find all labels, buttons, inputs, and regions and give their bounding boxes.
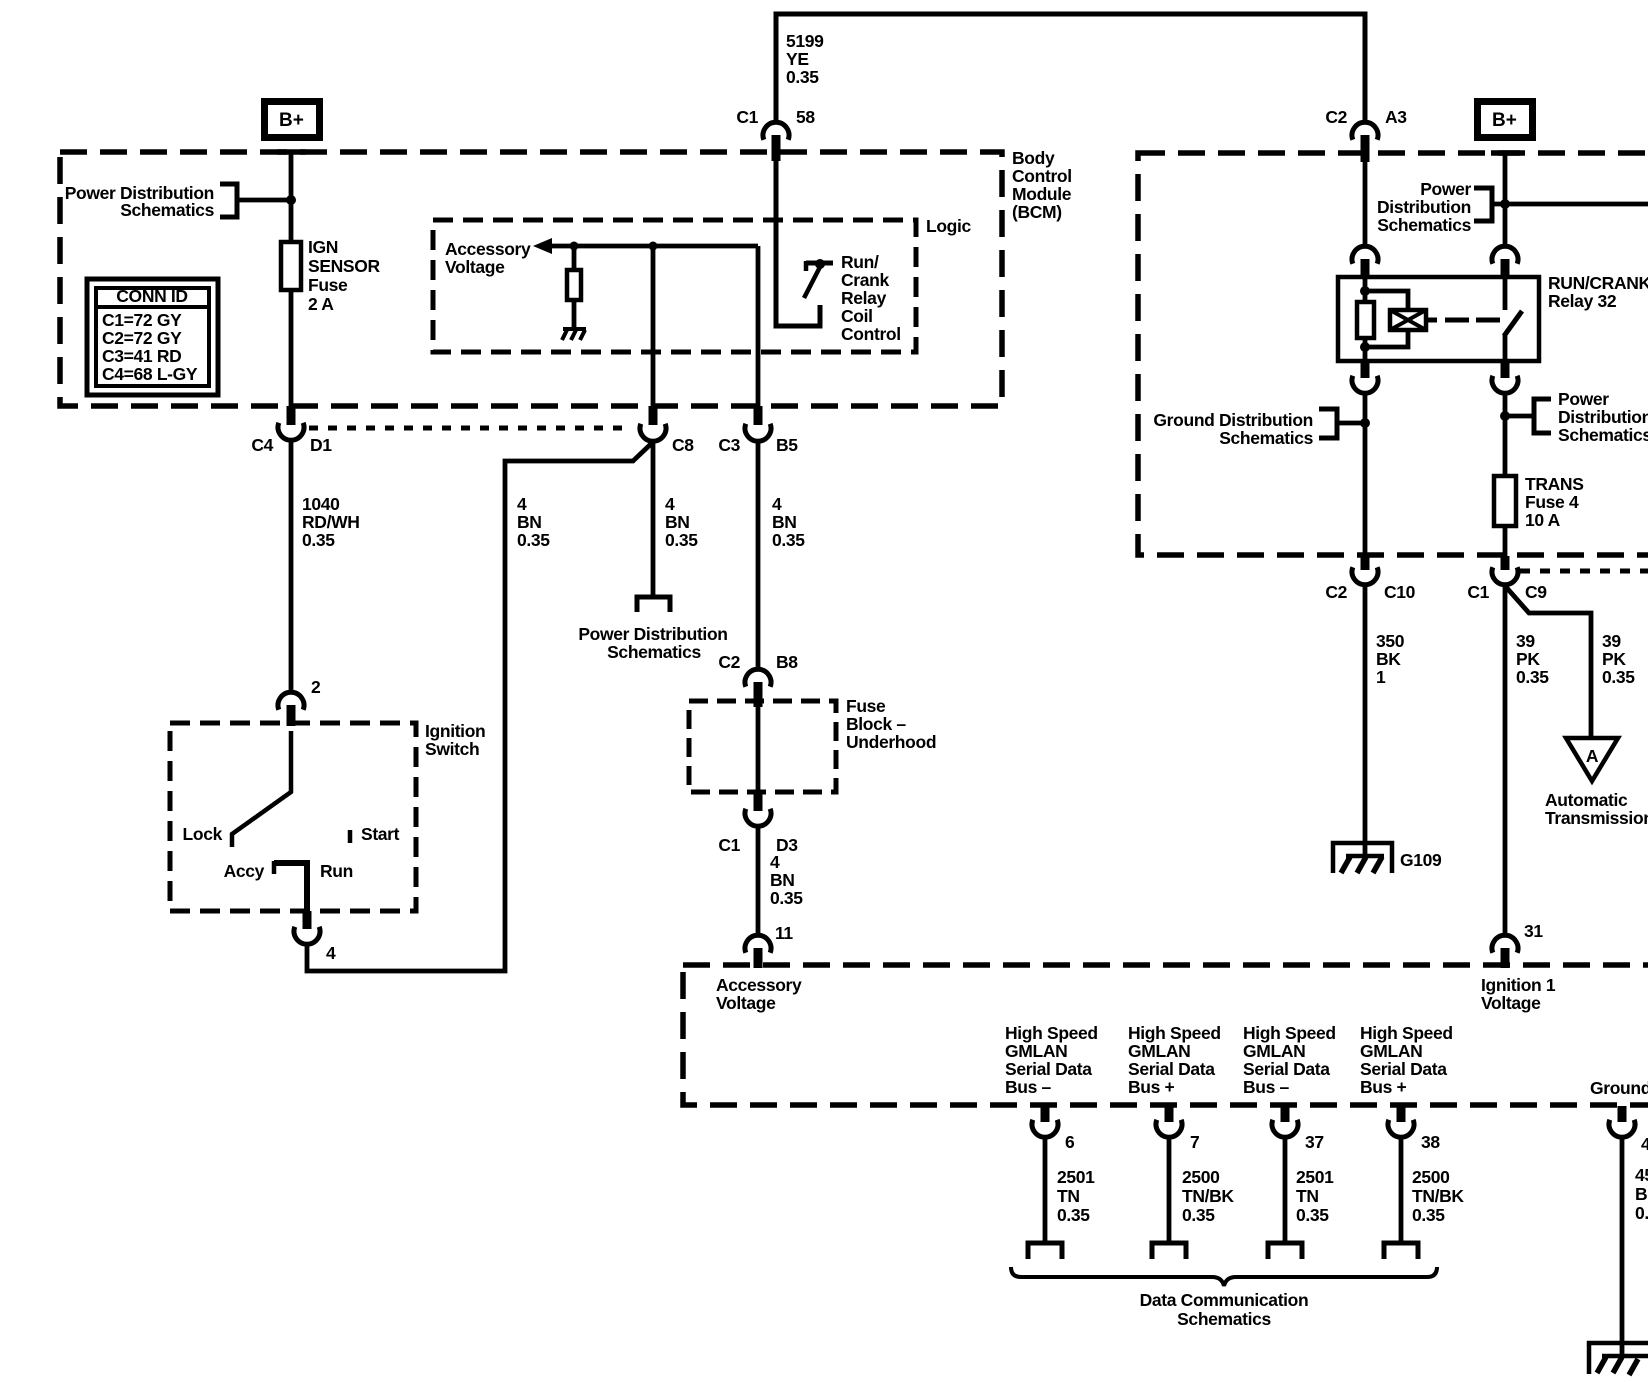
- label wire 4 BN 0.35 (ignition feed): [517, 494, 550, 550]
- svg-text:Fuse: Fuse: [846, 696, 886, 716]
- wire relay coil to C2-C10: [1363, 393, 1368, 556]
- label Accessory Voltage (bottom box): [716, 975, 802, 1013]
- svg-text:31: 31: [1524, 921, 1543, 941]
- wire ground distribution tap: [1337, 421, 1365, 426]
- label wire 2501 TN 0.35 (pin 37): [1296, 1167, 1334, 1225]
- bracket Ground Distribution Schematics: [1319, 409, 1337, 438]
- svg-text:Serial Data: Serial Data: [1005, 1059, 1092, 1079]
- wire C10 to ground G109: [1363, 585, 1368, 856]
- svg-text:BN: BN: [665, 512, 690, 532]
- svg-text:TN: TN: [1296, 1186, 1319, 1206]
- junction dot ground distribution: [1360, 418, 1370, 428]
- connector relay switch pin (bottom): [1492, 361, 1518, 393]
- svg-text:0.35: 0.35: [665, 530, 698, 550]
- svg-text:A3: A3: [1385, 107, 1407, 127]
- svg-text:Fuse 4: Fuse 4: [1525, 492, 1579, 512]
- label wire 4 BN 0.35 (power distribution): [665, 494, 698, 550]
- svg-text:RUN/CRANK: RUN/CRANK: [1548, 273, 1648, 293]
- svg-text:2501: 2501: [1296, 1167, 1334, 1187]
- label Body Control Module (BCM): [1012, 148, 1072, 222]
- svg-text:C3=41 RD: C3=41 RD: [102, 346, 181, 366]
- wire fuse to connector C4: [289, 290, 294, 406]
- svg-text:C10: C10: [1384, 582, 1416, 602]
- label wire 39 PK 0.35 (ignition 1): [1516, 631, 1549, 687]
- svg-text:Serial Data: Serial Data: [1243, 1059, 1330, 1079]
- svg-text:Voltage: Voltage: [716, 993, 776, 1013]
- CONN ID table: [87, 279, 218, 395]
- svg-text:2 A: 2 A: [308, 294, 334, 314]
- label TRANS Fuse 4 10 A: [1525, 474, 1584, 530]
- wire TRANS fuse to box edge: [1503, 526, 1508, 556]
- label wire 4 BN 0.35 (fuse block feed): [772, 494, 805, 550]
- junction dot coil bottom: [1360, 342, 1370, 352]
- svg-text:Block –: Block –: [846, 714, 906, 734]
- label IGN SENSOR Fuse 2 A: [308, 237, 381, 314]
- wire branch down to connector C8: [651, 246, 656, 406]
- connector pin 31 (ignition 1 voltage input): [1492, 921, 1543, 968]
- wire C1-58 to run/crank driver: [776, 161, 820, 326]
- svg-text:Voltage: Voltage: [1481, 993, 1541, 1013]
- label Ignition 1 Voltage: [1481, 975, 1556, 1013]
- svg-text:RD/WH: RD/WH: [302, 512, 360, 532]
- B+ power symbol (left): [261, 98, 323, 141]
- svg-text:B8: B8: [776, 652, 798, 672]
- svg-text:SENSOR: SENSOR: [308, 256, 381, 276]
- svg-text:58: 58: [796, 107, 815, 127]
- wire C9 to pin 31: [1503, 585, 1508, 935]
- svg-text:2500: 2500: [1182, 1167, 1220, 1187]
- label wire 350 BK 1: [1376, 631, 1405, 687]
- svg-text:5199: 5199: [786, 31, 824, 51]
- svg-text:Schematics: Schematics: [607, 642, 701, 662]
- connector C1 pin 58 (BCM top): [736, 107, 815, 161]
- wire C4-D1 down to ignition switch pin 2: [289, 440, 294, 692]
- label High Speed GMLAN Serial Data Bus + (pin 7): [1128, 1023, 1221, 1097]
- svg-text:0.35: 0.35: [770, 888, 803, 908]
- connector C4 pin D1 (BCM bottom): [251, 406, 332, 455]
- wire power distribution tap to edge: [1492, 202, 1648, 207]
- connector relay coil pin (top): [1352, 246, 1378, 277]
- svg-text:39: 39: [1602, 631, 1621, 651]
- svg-text:4: 4: [326, 943, 336, 963]
- svg-text:High Speed: High Speed: [1360, 1023, 1453, 1043]
- svg-text:0.35: 0.35: [1602, 667, 1635, 687]
- svg-text:Coil: Coil: [841, 306, 873, 326]
- wire C2-A3 into relay coil: [1363, 162, 1368, 246]
- connector pin 37 (GMLAN bus -): [1272, 1106, 1324, 1152]
- svg-text:Bus –: Bus –: [1005, 1077, 1052, 1097]
- svg-text:Fuse: Fuse: [308, 275, 348, 295]
- svg-text:High Speed: High Speed: [1128, 1023, 1221, 1043]
- wire C8 to power distribution stub: [651, 441, 656, 597]
- svg-text:B+: B+: [1492, 110, 1517, 131]
- wire resistor to coil bottom: [1363, 338, 1368, 361]
- svg-text:Accy: Accy: [224, 861, 265, 881]
- connector C2 pin B8 (fuse block top): [718, 652, 798, 707]
- svg-text:Serial Data: Serial Data: [1360, 1059, 1447, 1079]
- svg-text:C8: C8: [672, 435, 694, 455]
- Logic dashed box inside BCM: [433, 220, 916, 352]
- svg-text:C2: C2: [718, 652, 740, 672]
- svg-text:11: 11: [775, 923, 793, 943]
- off-page reference A (automatic transmission): [1566, 738, 1618, 781]
- wire 2501 TN (pin 6): [1043, 1137, 1048, 1242]
- connector pin 4 (ignition switch): [294, 911, 336, 963]
- svg-text:BN: BN: [772, 512, 797, 532]
- svg-text:0.35: 0.35: [1057, 1205, 1090, 1225]
- svg-text:2501: 2501: [1057, 1167, 1095, 1187]
- svg-text:Control: Control: [1012, 166, 1072, 186]
- fuse TRANS Fuse 4 10A: [1494, 476, 1516, 526]
- contact Start: [348, 830, 353, 843]
- svg-text:Relay: Relay: [841, 288, 887, 308]
- svg-text:Power: Power: [1420, 179, 1471, 199]
- svg-text:Module: Module: [1012, 184, 1072, 204]
- connector pin C8 (BCM bottom): [640, 406, 694, 455]
- connector C3 pin B5 (BCM bottom): [718, 406, 798, 455]
- svg-text:(BCM): (BCM): [1012, 202, 1062, 222]
- label wire 39 PK 0.35 (transmission): [1602, 631, 1635, 687]
- connector pin 7 (GMLAN bus +): [1156, 1106, 1199, 1152]
- switch relay contact: [1504, 277, 1522, 361]
- svg-text:CONN ID: CONN ID: [116, 286, 187, 306]
- arrow Accessory Voltage: [533, 238, 552, 254]
- svg-text:Schematics: Schematics: [1558, 425, 1648, 445]
- svg-text:Power: Power: [1558, 389, 1609, 409]
- label High Speed GMLAN Serial Data Bus - (pin 37): [1243, 1023, 1336, 1097]
- svg-text:Control: Control: [841, 324, 901, 344]
- svg-text:6: 6: [1065, 1132, 1075, 1152]
- connector pin 38 (GMLAN bus +): [1388, 1106, 1440, 1152]
- svg-text:C1: C1: [718, 835, 740, 855]
- ground chassis (bottom right): [1589, 1343, 1648, 1375]
- svg-text:Schematics: Schematics: [120, 200, 214, 220]
- svg-text:Ground: Ground: [1590, 1078, 1648, 1098]
- svg-text:Ignition 1: Ignition 1: [1481, 975, 1556, 995]
- svg-text:Run: Run: [320, 861, 353, 881]
- label wire 5199 YE 0.35: [786, 31, 824, 87]
- label Power Distribution Schematics (left): [65, 183, 215, 220]
- wire relay switch to TRANS fuse: [1503, 393, 1508, 476]
- label Power Distribution Schematics (top right): [1377, 179, 1472, 235]
- connector C2 pin A3 (relay feed): [1325, 107, 1407, 162]
- fuse IGN SENSOR 2A: [281, 242, 301, 290]
- wire 5199 YE top run from BCM C1-58 to relay C2-A3: [776, 14, 1365, 123]
- svg-text:350: 350: [1376, 631, 1405, 651]
- svg-text:Start: Start: [361, 824, 400, 844]
- wire 2501 TN (pin 37): [1283, 1137, 1288, 1242]
- ground G109: [1333, 843, 1442, 873]
- svg-text:Transmission: Transmission: [1545, 808, 1648, 828]
- svg-text:Schematics: Schematics: [1377, 215, 1471, 235]
- Fuse Block Underhood dashed box: [689, 701, 836, 792]
- svg-text:Body: Body: [1012, 148, 1055, 168]
- wire B+ right feed: [1503, 153, 1508, 246]
- label High Speed GMLAN Serial Data Bus + (pin 38): [1360, 1023, 1453, 1097]
- svg-text:G109: G109: [1400, 850, 1442, 870]
- wire pin 4 to BCM connector C8: [307, 442, 653, 971]
- switch run/crank relay coil driver: [804, 259, 833, 298]
- svg-text:D1: D1: [310, 435, 332, 455]
- svg-text:Switch: Switch: [425, 739, 479, 759]
- svg-text:Bus –: Bus –: [1243, 1077, 1290, 1097]
- svg-text:Bus +: Bus +: [1360, 1077, 1407, 1097]
- svg-text:0.35: 0.35: [1296, 1205, 1329, 1225]
- svg-text:Relay 32: Relay 32: [1548, 291, 1617, 311]
- svg-text:Distribution: Distribution: [1558, 407, 1648, 427]
- inline connector dotted run: [309, 426, 627, 431]
- svg-text:Serial Data: Serial Data: [1128, 1059, 1215, 1079]
- svg-text:4: 4: [772, 494, 782, 514]
- svg-text:39: 39: [1516, 631, 1535, 651]
- svg-text:High Speed: High Speed: [1005, 1023, 1098, 1043]
- svg-text:Lock: Lock: [183, 824, 223, 844]
- wire accessory voltage bus: [549, 244, 758, 249]
- wire B5 to fuse block C2-B8: [756, 441, 761, 669]
- svg-text:C1=72 GY: C1=72 GY: [102, 310, 182, 330]
- svg-text:C2: C2: [1325, 107, 1347, 127]
- Body Control Module (BCM) dashed box: [60, 152, 1002, 406]
- connector ground pin (bottom right): [1609, 1106, 1648, 1154]
- wire through fuse block: [756, 707, 761, 792]
- svg-text:C9: C9: [1525, 582, 1547, 602]
- svg-text:0.35: 0.35: [1516, 667, 1549, 687]
- connector C1 pin C9: [1467, 556, 1547, 602]
- wire bracket to B+ feed: [237, 198, 291, 203]
- svg-text:C3: C3: [718, 435, 740, 455]
- Ignition Switch dashed box: [170, 723, 416, 911]
- label High Speed GMLAN Serial Data Bus - (pin 6): [1005, 1023, 1098, 1097]
- svg-text:7: 7: [1190, 1132, 1199, 1152]
- svg-text:IGN: IGN: [308, 237, 338, 257]
- label wire 450 BK 0.35: [1635, 1165, 1648, 1223]
- Underhood fuse block dashed box (right): [1138, 153, 1648, 555]
- svg-text:TN/BK: TN/BK: [1412, 1186, 1464, 1206]
- svg-text:GMLAN: GMLAN: [1243, 1041, 1305, 1061]
- svg-text:38: 38: [1421, 1132, 1440, 1152]
- junction dot on B+ feed: [286, 195, 296, 205]
- off-page stub (pin 7 data bus): [1152, 1243, 1186, 1259]
- inline connector dotted run (right): [1520, 569, 1648, 574]
- svg-text:B+: B+: [279, 110, 304, 131]
- contact Accy: [272, 861, 277, 874]
- connector pin 2 (ignition switch): [278, 677, 321, 726]
- svg-text:450: 450: [1635, 1165, 1648, 1185]
- svg-text:C4: C4: [251, 435, 273, 455]
- svg-text:BK: BK: [1376, 649, 1401, 669]
- wire B+ down to IGN SENSOR fuse: [289, 152, 294, 242]
- resistor (logic pull-down): [567, 270, 581, 300]
- svg-text:Bus +: Bus +: [1128, 1077, 1175, 1097]
- svg-text:2500: 2500: [1412, 1167, 1450, 1187]
- junction dot power distribution right: [1500, 411, 1510, 421]
- label Power Distribution Schematics (right): [1558, 389, 1648, 445]
- wire power distribution tap right: [1505, 414, 1534, 419]
- wire C9 branch to automatic transmission: [1506, 587, 1591, 738]
- label Accessory Voltage (logic output): [445, 239, 531, 277]
- svg-text:4: 4: [770, 852, 780, 872]
- bracket Power Distribution Schematics (right): [1534, 399, 1551, 433]
- svg-text:4: 4: [665, 494, 675, 514]
- connector relay coil pin (bottom): [1352, 361, 1378, 393]
- label Automatic Transmission: [1545, 790, 1648, 828]
- label Data Communication Schematics: [1140, 1290, 1309, 1329]
- wire 2500 TN/BK (pin 38): [1399, 1137, 1404, 1242]
- svg-text:Schematics: Schematics: [1219, 428, 1313, 448]
- svg-text:Ignition: Ignition: [425, 721, 485, 741]
- label wire 4 BN 0.35 (accessory voltage): [770, 852, 803, 908]
- wire ignition switch wiper arm: [232, 731, 291, 847]
- svg-text:Crank: Crank: [841, 270, 889, 290]
- svg-text:Run/: Run/: [841, 252, 879, 272]
- label wire 2500 TN/BK 0.35 (pin 7): [1182, 1167, 1234, 1225]
- svg-text:BN: BN: [770, 870, 795, 890]
- junction node at pull-up resistor: [570, 242, 579, 251]
- label wire 2501 TN 0.35 (pin 6): [1057, 1167, 1095, 1225]
- junction node at C8 branch: [649, 242, 658, 251]
- relay coil winding symbol: [1390, 310, 1426, 330]
- svg-text:B5: B5: [776, 435, 798, 455]
- svg-text:0.35: 0.35: [772, 530, 805, 550]
- resistor relay parallel resistor: [1357, 302, 1374, 338]
- connector C2 pin C10: [1325, 556, 1415, 602]
- svg-text:Automatic: Automatic: [1545, 790, 1628, 810]
- ground (logic internal): [562, 329, 586, 340]
- svg-text:37: 37: [1305, 1132, 1324, 1152]
- svg-text:C2: C2: [1325, 582, 1347, 602]
- wire relay actuating link: [1426, 318, 1502, 323]
- wire 2500 TN/BK (pin 7): [1167, 1137, 1172, 1242]
- svg-text:GMLAN: GMLAN: [1360, 1041, 1422, 1061]
- connector C1 pin D3 (fuse block bottom): [718, 793, 798, 855]
- svg-text:2: 2: [311, 677, 321, 697]
- svg-text:1: 1: [1376, 667, 1386, 687]
- label Fuse Block - Underhood: [846, 696, 936, 752]
- svg-text:C1: C1: [1467, 582, 1489, 602]
- label wire 2500 TN/BK 0.35 (pin 38): [1412, 1167, 1464, 1225]
- svg-text:C1: C1: [736, 107, 758, 127]
- svg-text:YE: YE: [786, 49, 809, 69]
- connector pin 6 (GMLAN bus -): [1032, 1106, 1075, 1152]
- body module dashed box (bottom): [683, 965, 1648, 1105]
- off-page stub (pin 38 data bus): [1384, 1243, 1418, 1259]
- connector relay switch pin (top): [1492, 246, 1518, 277]
- wire D3 to pin 11: [756, 826, 761, 935]
- junction dot power distribution top right: [1500, 199, 1510, 209]
- svg-text:PK: PK: [1516, 649, 1540, 669]
- bracket Power Distribution Schematics (left): [220, 184, 237, 217]
- wire Run contact to pin 4: [274, 863, 307, 911]
- junction dot coil top: [1360, 286, 1370, 296]
- svg-text:Power Distribution: Power Distribution: [578, 624, 727, 644]
- svg-text:Ground Distribution: Ground Distribution: [1153, 410, 1313, 430]
- svg-text:1040: 1040: [302, 494, 340, 514]
- off-page stub (pin 6 data bus): [1028, 1243, 1062, 1259]
- wire coil loop: [1365, 291, 1408, 347]
- svg-text:GMLAN: GMLAN: [1005, 1041, 1067, 1061]
- label Ground Distribution Schematics: [1153, 410, 1313, 448]
- brace data communication group: [1011, 1267, 1437, 1286]
- label wire 1040 RD/WH 0.35: [302, 494, 360, 550]
- svg-text:Voltage: Voltage: [445, 257, 505, 277]
- svg-text:Logic: Logic: [926, 216, 972, 236]
- connector pin 11 (accessory voltage input): [745, 923, 793, 968]
- svg-text:C4=68 L-GY: C4=68 L-GY: [102, 364, 198, 384]
- svg-text:Distribution: Distribution: [1377, 197, 1471, 217]
- bracket Power Distribution Schematics (top right): [1474, 188, 1492, 221]
- svg-text:High Speed: High Speed: [1243, 1023, 1336, 1043]
- wire relay coil left rail: [1363, 277, 1368, 302]
- svg-text:4: 4: [517, 494, 527, 514]
- off-page stub (pin 37 data bus): [1268, 1243, 1302, 1259]
- off-page stub (power distribution): [637, 597, 670, 612]
- label Power Distribution Schematics (below C8): [578, 624, 727, 662]
- B+ power symbol (right): [1474, 98, 1536, 141]
- relay RUN/CRANK Relay 32 body: [1338, 277, 1539, 361]
- svg-text:BN: BN: [517, 512, 542, 532]
- svg-text:A: A: [1586, 746, 1599, 766]
- svg-text:TN/BK: TN/BK: [1182, 1186, 1234, 1206]
- svg-text:Accessory: Accessory: [445, 239, 531, 259]
- svg-text:10 A: 10 A: [1525, 510, 1561, 530]
- wire to resistor: [572, 246, 577, 270]
- svg-text:0.35: 0.35: [517, 530, 550, 550]
- label Ignition Switch: [425, 721, 485, 759]
- wire resistor to ground: [572, 300, 577, 329]
- svg-text:GMLAN: GMLAN: [1128, 1041, 1190, 1061]
- svg-text:4: 4: [1641, 1134, 1648, 1154]
- svg-text:Data Communication: Data Communication: [1140, 1290, 1309, 1310]
- svg-text:0.35: 0.35: [1635, 1203, 1648, 1223]
- svg-text:C2=72 GY: C2=72 GY: [102, 328, 182, 348]
- label RUN/CRANK Relay 32: [1548, 273, 1648, 311]
- svg-text:0.35: 0.35: [302, 530, 335, 550]
- svg-text:Schematics: Schematics: [1177, 1309, 1271, 1329]
- svg-text:BK: BK: [1635, 1184, 1648, 1204]
- svg-text:TN: TN: [1057, 1186, 1080, 1206]
- svg-text:PK: PK: [1602, 649, 1626, 669]
- svg-text:Accessory: Accessory: [716, 975, 802, 995]
- svg-text:0.35: 0.35: [1412, 1205, 1445, 1225]
- svg-text:0.35: 0.35: [1182, 1205, 1215, 1225]
- wire ground pin to chassis ground: [1620, 1137, 1625, 1356]
- label Run/Crank Relay Coil Control: [841, 252, 901, 344]
- svg-text:TRANS: TRANS: [1525, 474, 1584, 494]
- svg-text:Underhood: Underhood: [846, 732, 936, 752]
- svg-text:0.35: 0.35: [786, 67, 819, 87]
- wire accessory bus down to connector B5: [756, 246, 761, 406]
